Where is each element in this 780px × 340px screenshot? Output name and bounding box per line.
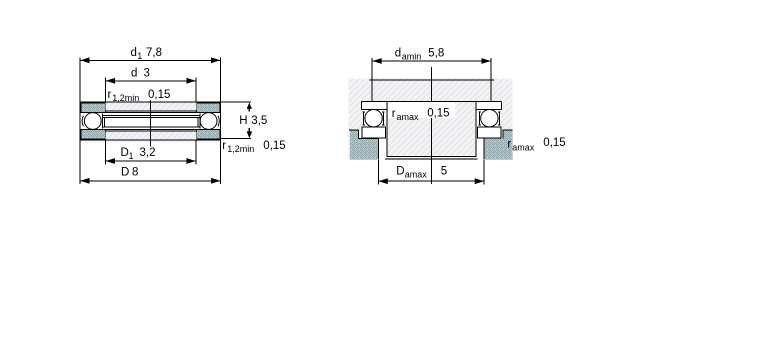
- bottom washer: [477, 127, 501, 138]
- dimension D1 3,2: [105, 140, 195, 164]
- label r1,2min 0,15 (top): [108, 89, 171, 103]
- svg-text:amin: amin: [402, 52, 422, 62]
- washer stack right (white cutout): [476, 102, 501, 139]
- bottom washer: [362, 127, 386, 138]
- shaft washer middle band (hatched): [106, 103, 197, 111]
- ball: [365, 110, 382, 127]
- raceway lines: [103, 115, 200, 117]
- washer top faces line: [361, 101, 501, 103]
- ball right: [200, 113, 217, 130]
- svg-text:1,2min: 1,2min: [112, 93, 139, 103]
- svg-text:d: d: [131, 67, 137, 79]
- svg-text:1: 1: [137, 51, 142, 61]
- svg-text:0,15: 0,15: [263, 140, 285, 152]
- dimension H 3,5: [221, 102, 268, 127]
- cage band: [103, 117, 201, 119]
- cage bars: [479, 112, 481, 125]
- washer stack left (white cutout): [361, 102, 386, 139]
- shaft narrow part outline: [387, 102, 476, 157]
- svg-text:3,2: 3,2: [140, 147, 156, 159]
- svg-text:8: 8: [132, 166, 138, 178]
- label r_amax 0,15 (outer right, on white box): [507, 137, 565, 152]
- housing shoulder left (blue): [350, 130, 378, 160]
- ball: [481, 110, 498, 127]
- white clearance gaps beside shaft below washers: [379, 139, 387, 160]
- svg-text:3: 3: [144, 67, 150, 79]
- cage bars: [363, 112, 365, 125]
- bearing outer outline: [80, 102, 221, 140]
- svg-text:0,15: 0,15: [148, 89, 170, 101]
- svg-text:1,2min: 1,2min: [227, 144, 254, 154]
- background hatch (shaft + housing material): [349, 79, 513, 160]
- svg-text:D: D: [396, 166, 404, 178]
- shaft shoulder outline: [371, 80, 373, 102]
- svg-text:7,8: 7,8: [146, 47, 162, 59]
- dimension D_amax 5: [378, 160, 484, 185]
- housing washer middle band (hatched): [106, 131, 197, 139]
- shadow band below bearing: [81, 141, 221, 143]
- svg-text:amax: amax: [512, 142, 535, 152]
- svg-text:3,5: 3,5: [251, 115, 267, 127]
- svg-text:d: d: [131, 47, 137, 59]
- svg-text:D: D: [121, 166, 129, 178]
- svg-text:amax: amax: [397, 112, 420, 122]
- svg-text:d: d: [395, 48, 401, 60]
- dimension d1 7,8: [80, 47, 221, 102]
- label r1,2min 0,15 (right) with leader arrow: [221, 128, 286, 154]
- svg-text:1: 1: [129, 151, 134, 161]
- housing bore bottom line: [385, 158, 478, 160]
- svg-text:r: r: [392, 108, 396, 120]
- housing washer section left (blue): [81, 130, 106, 140]
- label r_amax 0,15 (inner, on white box): [388, 102, 455, 122]
- dimension d_amin 5,8: [372, 48, 491, 80]
- svg-text:0,15: 0,15: [427, 107, 449, 119]
- svg-text:5,8: 5,8: [428, 48, 444, 60]
- svg-text:r: r: [507, 138, 511, 150]
- svg-text:r: r: [108, 89, 112, 101]
- top washer: [360, 102, 362, 110]
- svg-text:H: H: [239, 115, 247, 127]
- shaft washer section right (blue): [197, 103, 221, 113]
- svg-text:amax: amax: [405, 170, 428, 180]
- top washer: [501, 102, 503, 110]
- cage outer arcs: [82, 116, 83, 126]
- centerline left view: [149, 101, 151, 147]
- housing bore walls: [377, 138, 379, 159]
- svg-text:5: 5: [441, 166, 447, 178]
- washer inner face lines: [103, 112, 200, 114]
- dimension D 8: [80, 140, 221, 184]
- housing washer section right (blue): [197, 130, 221, 140]
- shaft washer section left (blue): [81, 103, 106, 113]
- ball left: [84, 113, 101, 130]
- centerline right view: [431, 67, 433, 184]
- dimension d 3: [106, 67, 196, 102]
- housing shoulder right (blue): [484, 130, 512, 160]
- svg-text:0,15: 0,15: [543, 137, 565, 149]
- svg-text:r: r: [222, 140, 226, 152]
